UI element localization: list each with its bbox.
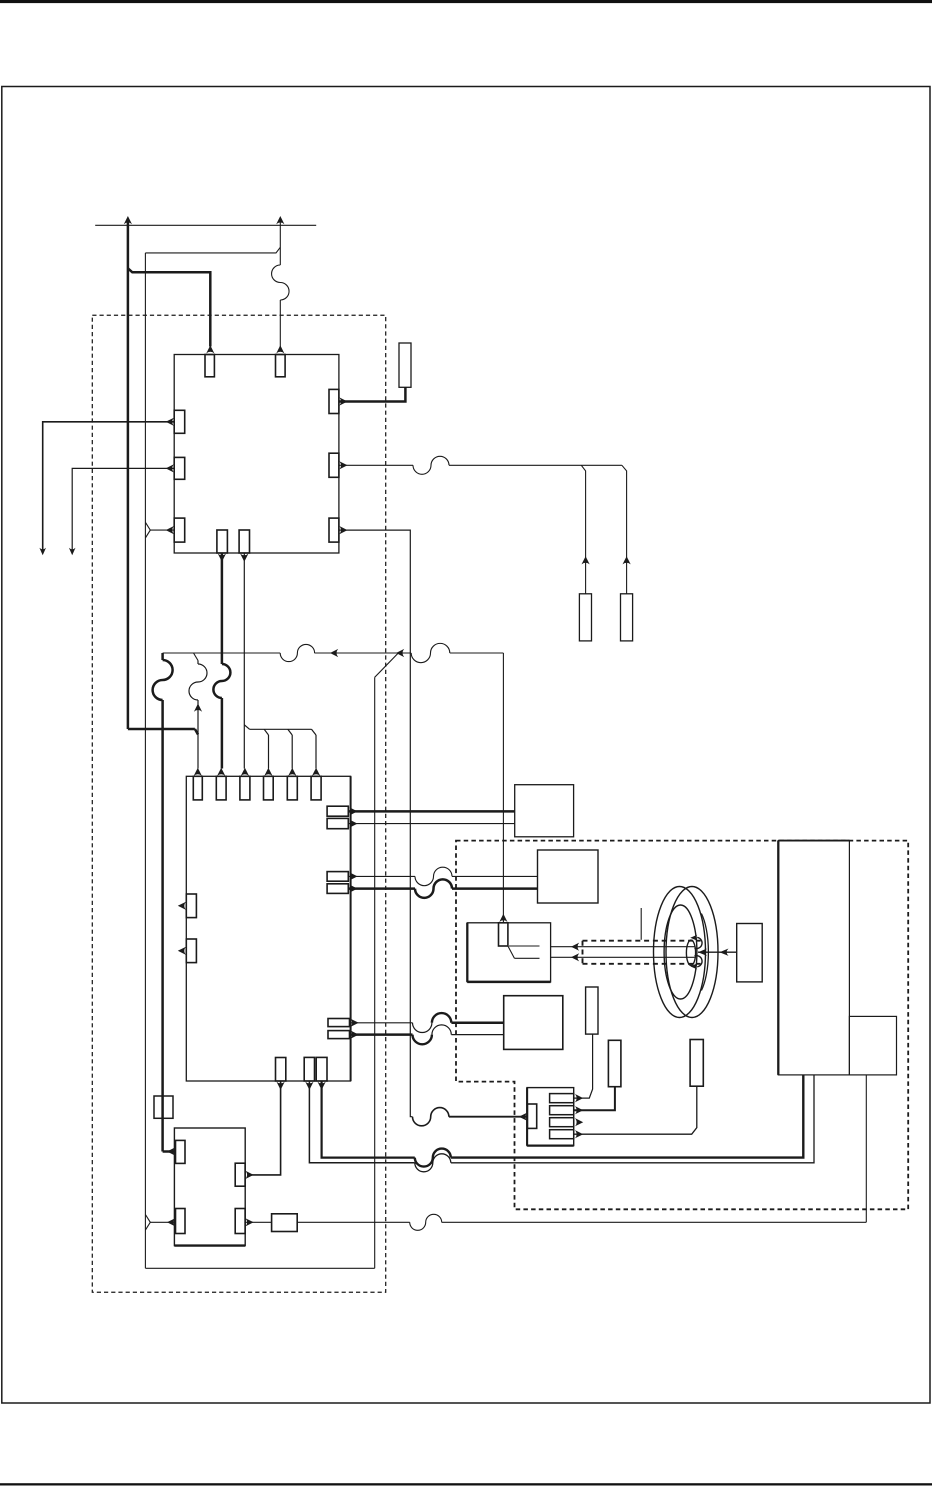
wire thick U1-B1 lower: [221, 698, 224, 769]
squiggle on ignition feed: [153, 660, 173, 700]
squiggle on U2 pin1 wire: [189, 664, 207, 700]
U2 pin 5: [287, 776, 297, 800]
sensor module A: [538, 850, 599, 903]
squiggle on U4-R2 wire: [410, 1214, 442, 1230]
switch contact diagonal: [375, 653, 399, 677]
wire thick U2-R2b right part: [452, 887, 538, 890]
wire U1-R2 trunk right part: [449, 464, 622, 466]
C5 slot 1: [550, 1094, 574, 1103]
wire U4-R2 trunk: [297, 1221, 410, 1223]
U1 pin L3: [174, 518, 185, 542]
arrow up to bus at node B+1: [124, 216, 132, 224]
wire U2-R3a to sensor C: [350, 1022, 413, 1024]
toroid front hole arc: [701, 914, 708, 991]
C5 slot 2: [550, 1106, 574, 1115]
dashed enclosure (injection system) right: [456, 841, 908, 1210]
C5 slot 3: [550, 1118, 574, 1127]
U1 pin B1: [217, 530, 228, 553]
toroid inner hole ellipse: [664, 905, 697, 999]
wire long left net down: [144, 253, 146, 1268]
wire switched net right: [450, 652, 504, 654]
wire U1-R3 down to connector C5: [339, 530, 413, 1117]
label leader tick: [640, 908, 642, 940]
wire U2-Bb down: [309, 1081, 414, 1163]
sensor stub R2a: [579, 594, 591, 641]
relay K1 body: [467, 923, 550, 982]
squiggle on U2-Bc wire: [415, 1149, 451, 1167]
wire thick U2-Bc down: [322, 1081, 415, 1158]
sender V3: [690, 1040, 703, 1087]
arrow up to bus at node B+2: [276, 216, 284, 224]
wire thick U2-R1a to module G: [348, 810, 514, 813]
jog from B+2 wire to cross wire: [145, 247, 280, 253]
arrow out U2 pin R1a: [349, 807, 357, 815]
arrow at U1 pin L2: [166, 464, 174, 472]
U2 pin R3a: [328, 1019, 350, 1027]
sensor stub R2b: [621, 594, 633, 641]
arrow into U2 pin4: [264, 768, 272, 776]
module G: [515, 785, 574, 837]
hook arrow upper wire end: [690, 935, 702, 949]
wire U2-R2a right part: [452, 875, 538, 877]
wire U1-R2 trunk: [339, 464, 413, 466]
U2 pin Bb: [304, 1057, 314, 1081]
wire switched net mid: [314, 652, 411, 654]
arrow at U1 pin L3: [166, 526, 174, 534]
arrow out U2 pin R3b: [351, 1031, 359, 1039]
U1 pin T1: [205, 355, 214, 377]
wire unit F down to pump net: [865, 1075, 867, 1222]
wire thick U2-R2b to sensor A: [348, 887, 415, 890]
U2 pin 6: [311, 776, 321, 800]
arrow down end of L1 stub: [39, 548, 46, 555]
power bus line: [95, 224, 316, 226]
arrow into U1 pin T1: [206, 345, 214, 353]
arrow below U2 pin Bc: [318, 1082, 326, 1090]
wire C5 slot1 to sender V1: [574, 1034, 593, 1098]
wire U2-R1b to module G: [348, 823, 514, 825]
squiggle on U1-R3 wire: [413, 1108, 449, 1126]
U2 pin Ba: [276, 1058, 286, 1082]
wire switch riser: [374, 677, 376, 1268]
wire C5 slot2 to sender V2: [574, 1087, 615, 1111]
U4 pin L2: [176, 1209, 186, 1234]
U1 pin R2: [329, 453, 339, 477]
U2 pin R2a: [327, 872, 348, 882]
wire U2 pin1 upper: [197, 661, 199, 665]
ignition module U4: [174, 1128, 245, 1246]
wire from bus node B+2 down: [279, 220, 281, 265]
arrow out U4 pin R2: [245, 1218, 253, 1226]
wire thick ignition feed lower: [161, 700, 164, 1152]
wire U1-B2 to U2 pin3: [243, 553, 245, 769]
K1 coil pin: [499, 923, 508, 946]
squiggle on U2-R2a: [415, 867, 452, 886]
injector driver unit E: [778, 841, 849, 1075]
arrow up on R2b branch: [623, 556, 631, 564]
arrow below U2 pin Bb: [305, 1082, 313, 1090]
squiggle on U1-R2 wire: [413, 456, 449, 474]
wire thick U2-R3b to sensor C: [350, 1033, 413, 1036]
wire U2-R3a right part: [451, 1022, 503, 1025]
arrow out U2 pin R1b: [349, 820, 357, 828]
wire sensor D to core: [698, 951, 737, 953]
arrow up on U2 pin1 wire: [194, 704, 202, 712]
wire U1-R1 to resistor R1: [339, 387, 406, 401]
arrow into U2 pin1: [194, 768, 202, 776]
sensor module C: [504, 996, 563, 1050]
wire C5 slot4 to sender V3: [574, 1086, 697, 1134]
wire U2-Ba to U4 pin R1: [248, 1081, 281, 1175]
C5 slot 4: [550, 1130, 574, 1139]
wire K1 out upper to coil core: [551, 946, 695, 948]
wire thick ignition feed upper: [161, 653, 164, 660]
U2 pin 3: [240, 776, 250, 800]
wire switched net horizontal: [163, 652, 281, 654]
U2 pin R2b: [327, 884, 348, 894]
arrow out C5 slot3: [575, 1118, 583, 1126]
sender V1: [586, 987, 598, 1034]
squiggle on U2-Bb wire: [415, 1154, 451, 1172]
U1 pin T2: [276, 355, 286, 377]
hook arrow lower wire end: [690, 956, 702, 970]
U1 pin R1: [329, 389, 339, 413]
U2 pin 4: [264, 776, 274, 800]
U1 pin L2: [174, 457, 185, 479]
wire B+2 drop lower part: [279, 300, 281, 347]
wire drop to relay K1: [502, 653, 504, 923]
wire bottom return run: [145, 1267, 374, 1269]
arrow at U4 pin L2: [167, 1218, 175, 1226]
U2 pin R1b: [327, 818, 348, 828]
arrow left on switched net 2: [396, 649, 404, 657]
arrow left mid wire D: [720, 949, 729, 956]
wire into U4 pin L1: [163, 1150, 176, 1153]
K1 contact fixed: [509, 945, 540, 947]
arrow out C5 slot2: [575, 1106, 583, 1114]
tap junction on left net to U4-L2: [145, 1215, 175, 1231]
squiggle on B+2 drop wire: [272, 265, 289, 300]
wire U2-Bb to injector unit E: [451, 1075, 814, 1163]
arrow at U1 pin L1: [166, 418, 174, 426]
U2 pin L2: [186, 939, 196, 963]
C5 side pin: [527, 1104, 536, 1128]
arrow down end of L2 stub: [69, 548, 76, 555]
arrow out U2 pin R3a: [351, 1019, 359, 1027]
wire U1-L2 to ground stub: [72, 468, 174, 549]
arrow out U2 pin R2a: [349, 872, 357, 880]
arrow out U2 pin R2b: [349, 885, 357, 893]
squiggle on switched net 2: [411, 643, 450, 662]
U1 pin R3: [329, 518, 339, 542]
U4 pin R2: [235, 1209, 245, 1234]
wire thick branch jog to U1 pin T1: [128, 268, 210, 346]
wire U4-R2 to inline box: [245, 1221, 272, 1223]
U4 pin L1: [176, 1140, 186, 1163]
arrow below U1 pin B2: [240, 554, 248, 562]
wire U1-L1 to ground stub: [43, 422, 175, 550]
branch jog to sensor R2a: [581, 465, 585, 594]
wire thick feed from bus down left side: [127, 220, 130, 729]
arrow left at core: [698, 949, 707, 956]
injector unit F: [849, 1016, 896, 1075]
U2 pin R3b: [328, 1031, 350, 1039]
U4 pin R1: [235, 1163, 245, 1186]
arrow at U4 pin L1: [167, 1147, 175, 1155]
squiggle on U1-B1 wire: [213, 664, 230, 698]
U2 pin L1: [186, 894, 196, 918]
wire K1 out lower to coil core: [551, 956, 695, 958]
U1 pin B2: [239, 530, 249, 553]
U1 pin L1: [174, 410, 185, 433]
arrow left on switched net 1: [330, 649, 338, 657]
arrow up on R2a branch: [582, 556, 590, 564]
K1 contact moving diagonal: [508, 946, 515, 958]
arrow at U2 pin L1: [178, 902, 186, 910]
wire U4-R2 to unit F: [442, 1221, 867, 1223]
arrow up into relay wire: [499, 914, 507, 922]
U2 pin R1a: [327, 806, 348, 816]
arrow left on K1 lower wire: [571, 953, 579, 961]
arrow into U2 pin6: [312, 768, 320, 776]
branch jog to sensor R2b: [622, 465, 627, 594]
inline connector SB: [272, 1214, 298, 1232]
arrow below U1 pin B1: [218, 554, 226, 562]
U2 pin 1: [193, 776, 202, 800]
wire U2-R2a to sensor A: [348, 875, 415, 877]
resistor R1: [399, 343, 411, 387]
arrow at C5 side pin: [519, 1113, 527, 1121]
arrow out U1 pin R2: [339, 461, 347, 469]
toroid outer ellipse front: [666, 887, 718, 1018]
arrow at U2 pin L2: [178, 947, 186, 955]
wire thick U2-Bc to injector unit E: [451, 1075, 803, 1158]
arrow below U2 pin Ba: [277, 1082, 285, 1090]
arrow into U1 pin T2: [276, 345, 284, 353]
dashed enclosure (engine harness) left: [92, 315, 385, 1292]
arrow into U2 pin3: [241, 768, 249, 776]
control unit U1: [174, 355, 339, 554]
connector C5 body: [527, 1088, 574, 1146]
squiggle on U2-R2b: [415, 879, 452, 898]
squiggle on U2-R3a: [413, 1013, 452, 1032]
arrow out U1 pin R3: [339, 526, 347, 534]
squiggle on switched net: [280, 644, 314, 661]
wire U2 pin1 lower: [197, 700, 199, 769]
sensor D: [737, 924, 763, 982]
wire U1-R3 final to C5 pin: [449, 1116, 528, 1118]
tap diagonal from switched net to U2 pin1 wire: [194, 653, 199, 661]
tap junction on left net to U1-L3: [145, 522, 174, 538]
arrow out U1 pin R1: [339, 397, 347, 405]
wire thick U1-B1 to U2 pin2: [221, 553, 224, 664]
U2 pin Bc: [316, 1057, 327, 1081]
fuse F1: [154, 1096, 173, 1118]
arrow into U2 pin5: [288, 768, 296, 776]
wire thick bottom run to U2 pin1 net: [128, 729, 198, 735]
K1 contact lower: [514, 957, 539, 959]
arrow out U4 pin R1: [245, 1171, 253, 1179]
wire U2-R3b right part: [451, 1034, 503, 1036]
engine control unit U2: [186, 776, 350, 1081]
dashed twisted-pair boundary: [583, 941, 701, 964]
toroid core ellipse: [686, 940, 695, 965]
U2 pin 2: [216, 776, 226, 800]
fanout from U1-B2 wire to U2 pins 4-6: [244, 725, 316, 769]
squiggle on U2-R3b: [413, 1025, 452, 1044]
toroid outer ellipse rear: [654, 887, 706, 1018]
arrow left on K1 upper wire: [571, 943, 579, 951]
arrow out C5 slot1: [575, 1094, 583, 1102]
sender V2: [608, 1040, 621, 1086]
arrow into U2 pin2: [217, 768, 225, 776]
arrow out C5 slot4: [575, 1130, 583, 1138]
